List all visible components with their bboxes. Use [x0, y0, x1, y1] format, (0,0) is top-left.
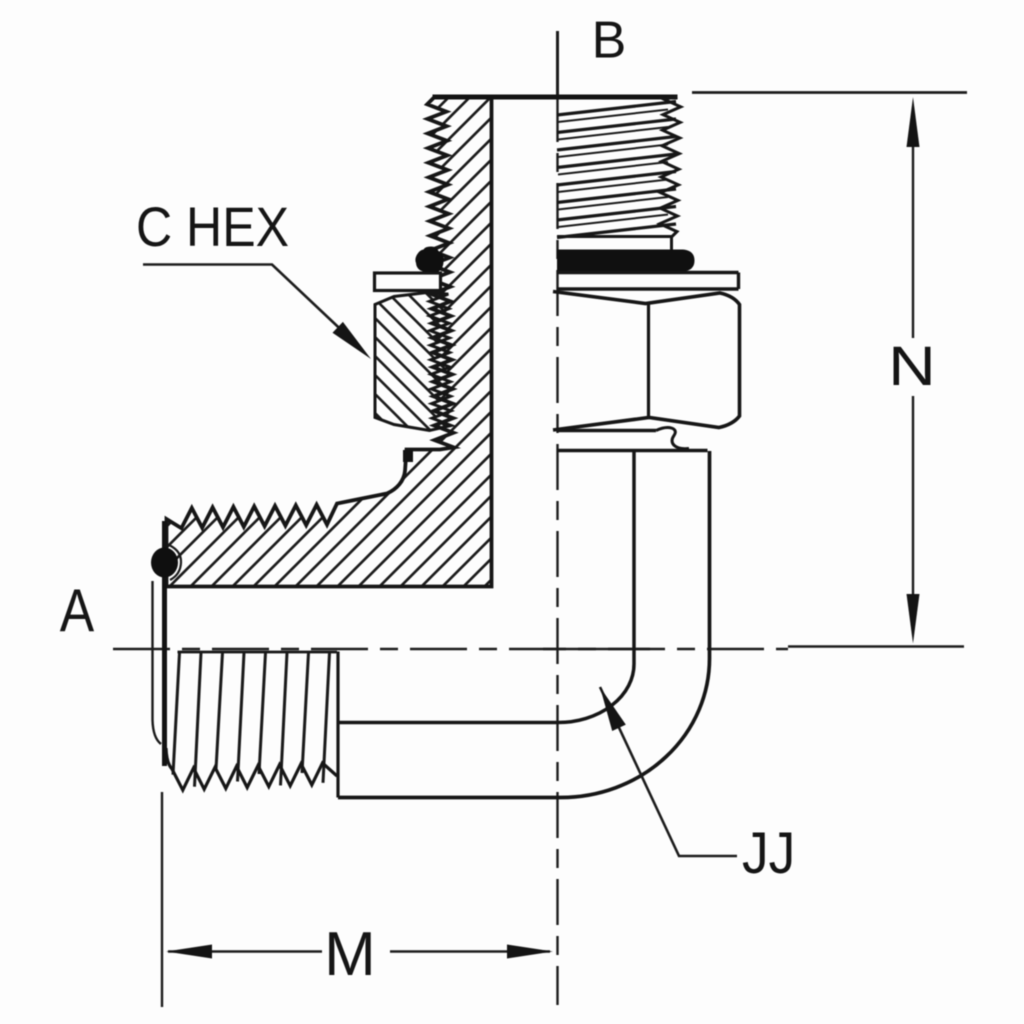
svg-text:N: N [888, 335, 936, 397]
svg-text:C HEX: C HEX [136, 195, 289, 258]
svg-text:JJ: JJ [742, 821, 795, 886]
svg-text:M: M [324, 920, 376, 989]
svg-text:A: A [60, 576, 95, 644]
svg-text:B: B [592, 12, 627, 70]
